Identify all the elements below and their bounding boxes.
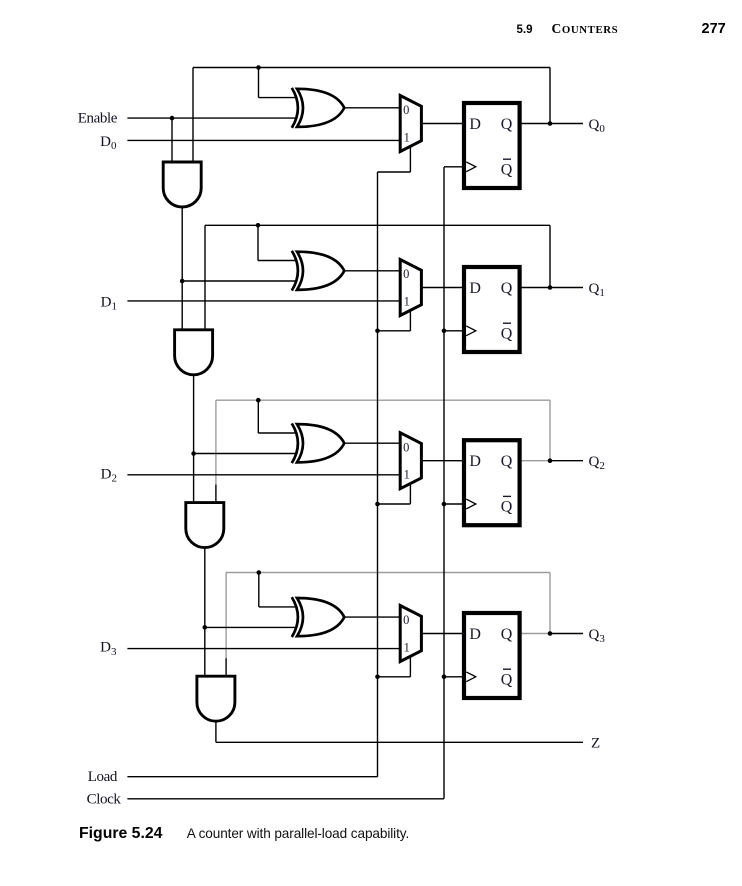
junction clock line tap stage 3	[442, 502, 447, 507]
wire Load vertical bus	[377, 172, 379, 777]
wire Clock input horizontal	[127, 798, 444, 800]
wire Q2 feedback left vertical lower	[215, 485, 217, 503]
svg-text:1: 1	[404, 641, 410, 655]
wire XOR stage 2 bottom input horizontal	[182, 280, 296, 282]
junction clock line tap stage 2	[442, 329, 447, 334]
junction feedback tap stage 4	[257, 570, 262, 575]
wire mux stage 3 select vertical	[409, 483, 411, 504]
wire Q2 feedback left vertical upper	[215, 400, 217, 484]
AND gate stage 1	[163, 162, 201, 207]
svg-text:0: 0	[403, 103, 409, 117]
svg-text:Q: Q	[501, 325, 513, 342]
wire Q2 feedback right vertical	[549, 400, 551, 461]
wire XOR stage 3 bottom input horizontal	[194, 453, 296, 455]
svg-text:1: 1	[404, 295, 410, 309]
junction feedback tap stage 2	[256, 223, 261, 228]
svg-text:Q: Q	[501, 626, 513, 643]
wire mux stage 4 select horizontal	[378, 676, 411, 678]
flip-flop stage 2 clock triangle	[466, 326, 476, 336]
wire XOR stage 4 top input horizontal	[259, 606, 296, 608]
multiplexer stage 1	[400, 96, 421, 152]
D flip-flop stage 4 box	[464, 613, 520, 698]
wire Load input horizontal	[127, 776, 377, 778]
junction feedback tap stage 3	[256, 398, 261, 403]
wire Q2 feedback top horizontal	[216, 399, 550, 401]
wire XOR stage 4 bottom input horizontal	[205, 626, 296, 628]
wire Q3 feedback left vertical lower	[225, 658, 227, 676]
AND gate stage 2	[175, 330, 213, 375]
wire D0 input to mux 1 input	[127, 139, 400, 141]
svg-text:0: 0	[403, 440, 409, 454]
svg-text:Q: Q	[501, 116, 513, 133]
wire mux stage 1 select vertical	[409, 146, 411, 172]
wire Q2 output stub	[520, 460, 550, 462]
wire Q3 feedback top horizontal	[226, 572, 550, 574]
multiplexer stage 3	[400, 433, 421, 489]
wire clock stub stage 3	[444, 503, 464, 505]
XOR gate stage 3 body	[297, 424, 344, 462]
wire XOR stage 2 top input vertical	[257, 225, 259, 260]
wire AND chain vertical stage 2 to 3	[193, 375, 195, 503]
wire Clock vertical bus	[443, 167, 445, 799]
AND gate stage 4	[197, 676, 235, 721]
svg-text:Q: Q	[501, 161, 513, 178]
junction load line tap stage 4	[375, 675, 380, 680]
wire Q1 output lead	[520, 287, 583, 289]
D flip-flop stage 1 box	[464, 103, 520, 188]
wire Enable input	[127, 117, 296, 119]
wire mux stage 3 select horizontal	[378, 503, 411, 505]
XOR gate stage 1 input curve	[292, 88, 298, 128]
D flip-flop stage 2 box	[464, 267, 520, 352]
wire Q1 feedback right vertical	[549, 225, 551, 287]
wire XOR stage 1 top input vertical	[258, 68, 260, 98]
wire mux stage 1 select horizontal	[378, 171, 411, 173]
svg-text:Q: Q	[501, 280, 513, 297]
XOR gate stage 1 body	[297, 89, 344, 127]
svg-text:5.9: 5.9	[517, 24, 533, 36]
junction Enable tap	[170, 116, 175, 121]
wire XOR stage 1 output to mux 0 input	[344, 107, 400, 109]
wire Q3 output lead	[550, 633, 583, 635]
svg-text:Load: Load	[88, 769, 118, 785]
wire XOR stage 3 top input vertical	[257, 400, 259, 433]
multiplexer stage 4	[400, 606, 421, 662]
XOR gate stage 2 input curve	[292, 251, 298, 291]
junction Q0 output node	[548, 121, 553, 126]
wire mux stage 4 output to flip-flop D	[421, 633, 464, 635]
junction load line tap stage 3	[375, 502, 380, 507]
wire Q3 feedback right vertical	[549, 573, 551, 634]
wire mux stage 2 output to flip-flop D	[421, 287, 464, 289]
svg-text:Clock: Clock	[87, 791, 122, 807]
wire XOR stage 3 output to mux 0 input	[344, 442, 400, 444]
wire Z output horizontal	[216, 741, 583, 743]
junction chain tap stage 2	[180, 279, 185, 284]
junction clock line tap stage 4	[442, 675, 447, 680]
wire Q1 feedback left vertical	[204, 225, 206, 329]
junction chain tap stage 4	[203, 625, 208, 630]
junction feedback tap stage 1	[256, 65, 261, 70]
svg-text:Q: Q	[501, 453, 513, 470]
flip-flop stage 3 clock triangle	[466, 499, 476, 509]
XOR gate stage 3 input curve	[292, 423, 298, 463]
svg-text:0: 0	[403, 613, 409, 627]
wire XOR stage 4 output to mux 0 input	[344, 616, 400, 618]
flip-flop stage 1 clock triangle	[466, 162, 476, 172]
svg-text:D: D	[469, 280, 481, 297]
junction load line tap stage 2	[375, 329, 380, 334]
wire D2 input to mux 1 input	[127, 474, 400, 476]
svg-text:Q: Q	[501, 499, 513, 516]
svg-text:277: 277	[702, 21, 726, 37]
svg-text:D: D	[469, 626, 481, 643]
multiplexer stage 2	[400, 260, 421, 316]
wire mux stage 1 output to flip-flop D	[421, 123, 464, 125]
svg-text:COUNTERS: COUNTERS	[552, 21, 619, 36]
junction Q3 output node	[548, 631, 553, 636]
svg-text:A counter with parallel-load c: A counter with parallel-load capability.	[187, 826, 409, 841]
wire Q1 feedback top horizontal	[205, 224, 550, 226]
wire D3 input to mux 1 input	[127, 648, 400, 650]
junction Q1 output node	[548, 285, 553, 290]
wire Q0 feedback right vertical	[549, 68, 551, 124]
wire XOR stage 4 top input vertical	[258, 573, 260, 607]
XOR gate stage 2 body	[297, 252, 344, 290]
wire AND chain vertical stage 1 to 2	[181, 207, 183, 330]
wire Q0 feedback left vertical	[192, 68, 194, 163]
svg-text:Figure 5.24: Figure 5.24	[79, 825, 163, 842]
D flip-flop stage 3 box	[464, 440, 520, 525]
svg-text:Enable: Enable	[78, 111, 118, 127]
wire mux stage 3 output to flip-flop D	[421, 460, 464, 462]
wire XOR stage 2 top input horizontal	[258, 260, 296, 262]
wire clock stub stage 4	[444, 676, 464, 678]
wire Q2 output lead	[550, 460, 583, 462]
svg-text:1: 1	[404, 131, 410, 145]
wire clock stub stage 2	[444, 330, 464, 332]
wire XOR stage 2 output to mux 0 input	[344, 270, 400, 272]
wire mux stage 4 select vertical	[409, 656, 411, 677]
XOR gate stage 4 input curve	[292, 597, 298, 637]
wire XOR stage 3 top input horizontal	[258, 432, 296, 434]
wire XOR stage 1 top input horizontal	[259, 97, 297, 99]
wire D1 input to mux 1 input	[127, 300, 400, 302]
wire Q0 output lead	[520, 123, 583, 125]
wire AND chain vertical stage 3 to 4	[204, 548, 206, 677]
wire mux stage 2 select horizontal	[378, 330, 411, 332]
svg-text:D: D	[469, 453, 481, 470]
wire Q3 output stub	[520, 633, 550, 635]
svg-text:Z: Z	[591, 736, 600, 752]
XOR gate stage 4 body	[297, 598, 344, 636]
wire Q3 feedback left vertical upper	[225, 573, 227, 659]
wire AND4 output vertical	[215, 721, 217, 742]
wire mux stage 2 select vertical	[409, 310, 411, 331]
wire Enable to AND1 vertical	[171, 118, 173, 162]
junction Q2 output node	[548, 458, 553, 463]
svg-text:0: 0	[403, 267, 409, 281]
svg-text:D: D	[469, 116, 481, 133]
svg-text:1: 1	[404, 468, 410, 482]
wire clock stub stage 1	[444, 166, 464, 168]
junction chain tap stage 3	[191, 451, 196, 456]
wire Q0 feedback top horizontal	[193, 67, 550, 69]
AND gate stage 3	[186, 503, 224, 548]
svg-text:Q: Q	[501, 671, 513, 688]
flip-flop stage 4 clock triangle	[466, 672, 476, 682]
